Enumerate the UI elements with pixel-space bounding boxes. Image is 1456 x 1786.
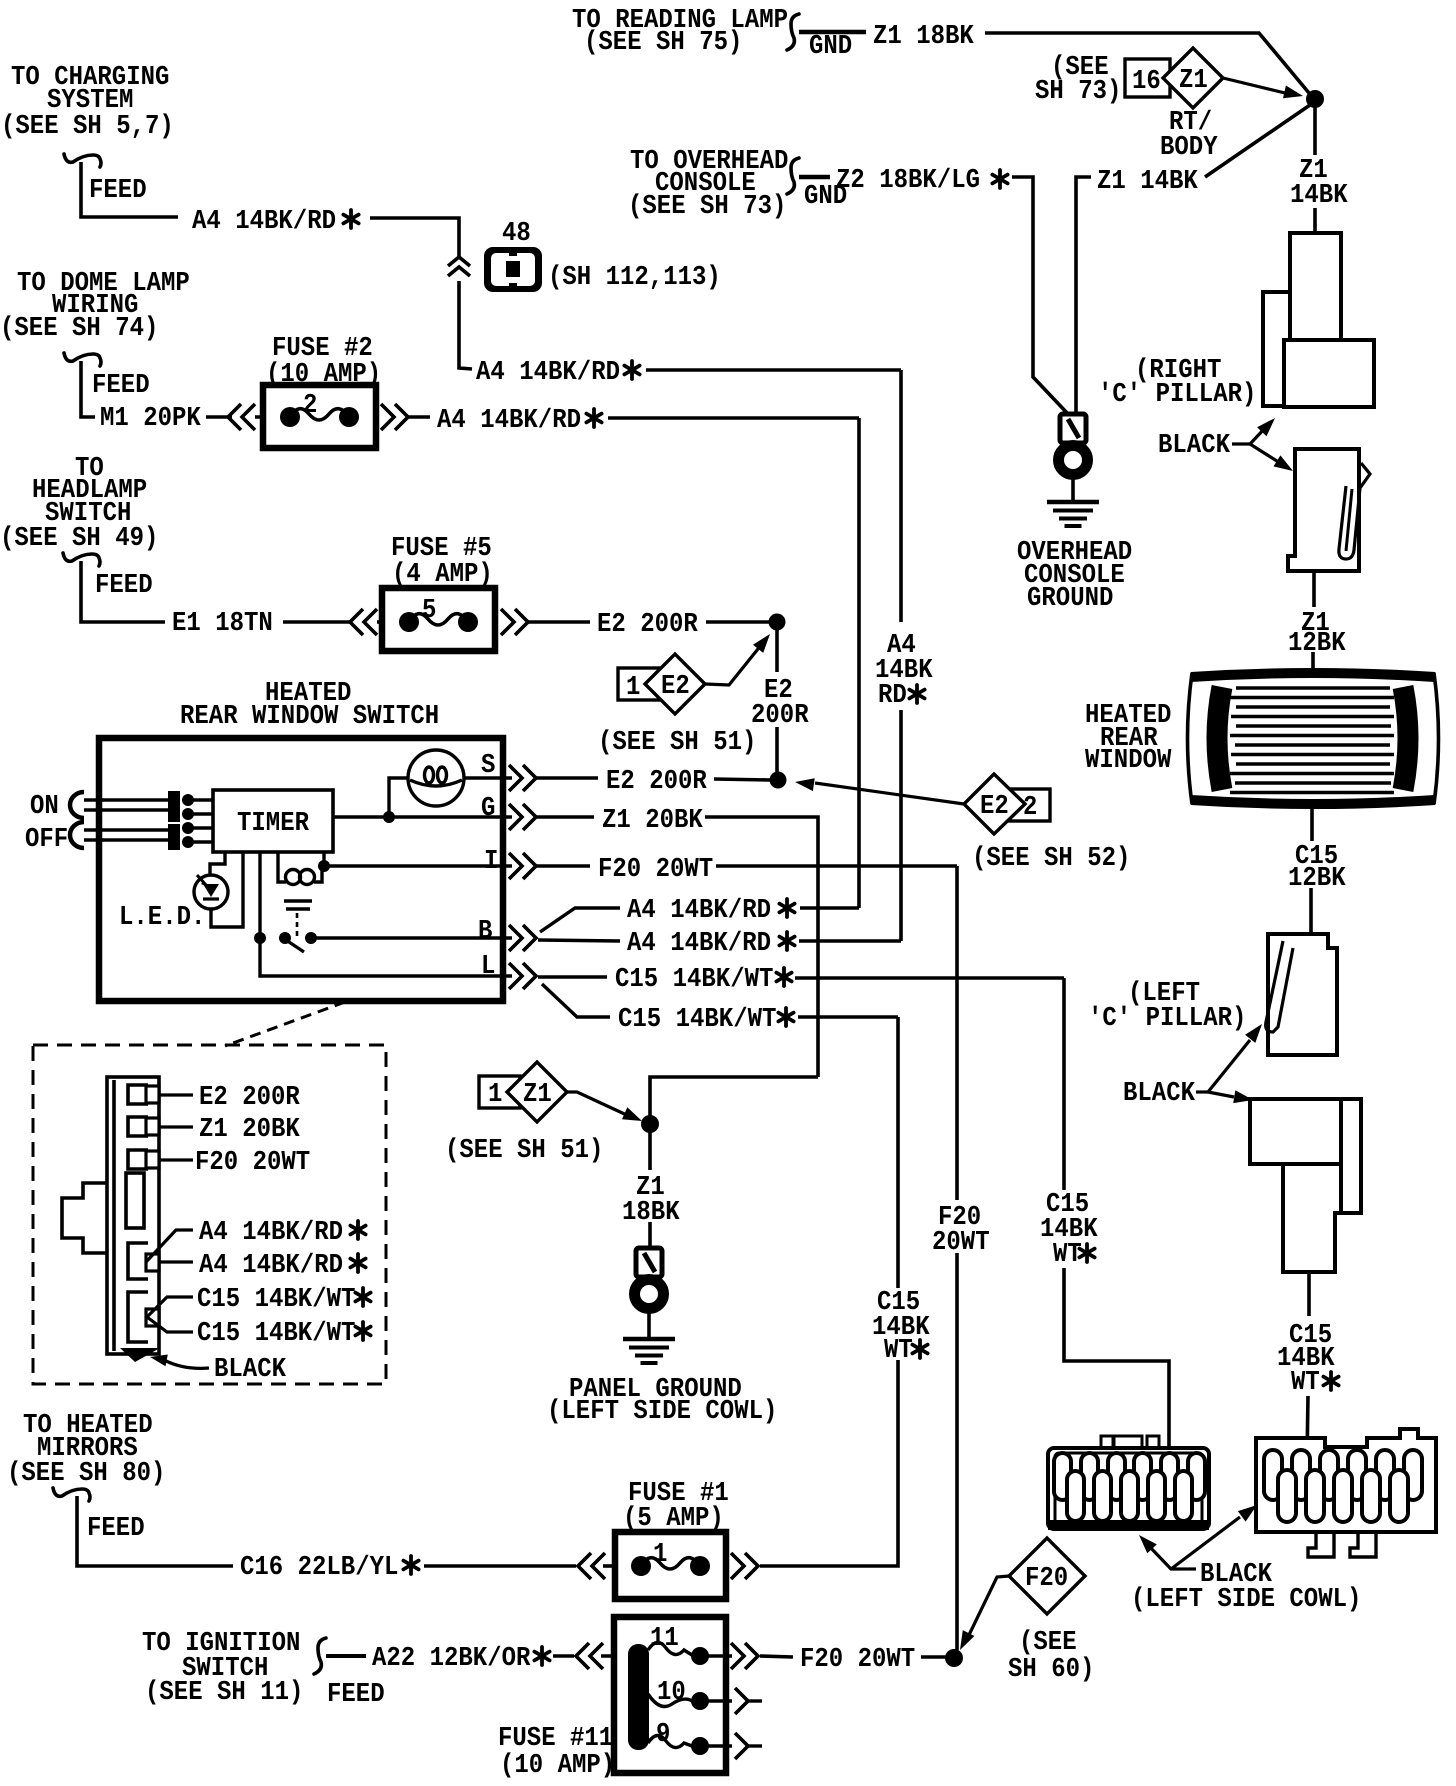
wire: Z1 down to right C pillar connector [1313, 107, 1317, 235]
feed symbol (headlamp switch) [63, 553, 153, 600]
ground: overhead console ground symbol [1047, 502, 1099, 526]
fuse block F11 (10A) with fuses 11/10/9 [614, 1617, 732, 1773]
wire: row1 to vertical x=859 [800, 906, 859, 910]
svg-text:ON: ON [30, 791, 59, 821]
wire: vertical A4 line x=859 [857, 418, 861, 908]
wire: pin G right then down x=818 [705, 817, 818, 1077]
svg-text:WT: WT [1053, 1239, 1082, 1269]
wire: gnd stub to Z2 label [799, 175, 830, 180]
LED D1 [119, 875, 228, 932]
svg-text:(SEE SH 75): (SEE SH 75) [584, 27, 742, 57]
wire: gnd stub to Z1 18BK [799, 30, 866, 35]
svg-text:E2 200R: E2 200R [597, 609, 698, 639]
svg-text:(SEE SH 51): (SEE SH 51) [445, 1135, 603, 1165]
dashed detail box (switch connector detail) [33, 1045, 386, 1384]
connector: left C pillar (upper half with latch) [1266, 934, 1337, 1055]
wire: lamp to S pin and to G node [389, 778, 512, 812]
wire: TIMER to B contact [258, 852, 261, 938]
wire: to F20 junction [921, 1655, 947, 1659]
pins of detail connector [146, 1086, 159, 1326]
wire: Z1 horizontal y=1077 and down x=650 [650, 1077, 818, 1249]
svg-text:(10 AMP): (10 AMP) [500, 1750, 615, 1780]
svg-text:A4 14BK/RD: A4 14BK/RD [627, 928, 771, 958]
wire: pin B straight row 2 [538, 940, 620, 941]
svg-text:Z2 18BK/LG: Z2 18BK/LG [836, 165, 980, 195]
switch contact (relay points) [254, 932, 317, 952]
svg-text:BLACK: BLACK [214, 1354, 286, 1384]
pin S [481, 750, 598, 791]
wire: fuse2 output right to vertical x=859 [608, 416, 859, 420]
inline connector chevrons on A4 wire [448, 257, 470, 276]
net label F20 20WT (on vertical) [932, 1202, 990, 1257]
node: (LEFT 'C' PILLAR) label [1088, 978, 1246, 1033]
node: TO CHARGING SYSTEM source label [1, 62, 174, 141]
svg-text:C16 22LB/YL: C16 22LB/YL [240, 1552, 398, 1582]
junction: E2 upper node [769, 614, 786, 631]
svg-text:(SEE SH 74): (SEE SH 74) [0, 313, 158, 343]
wire: Z1 18BK to junction (diagonal) [985, 33, 1309, 93]
wire: feed to C16 label [77, 1496, 233, 1566]
ring terminal (panel ground) [635, 1248, 664, 1309]
label BLACK with arrows (right C pillar) [1158, 418, 1293, 471]
wire: C15 14BK WT* drop to cowl connector [1307, 1272, 1309, 1460]
net label C15 14BK WT* (on x=1064 vertical) [1040, 1189, 1098, 1269]
wire: pin S to E2 lower junction [714, 779, 770, 780]
connector bars inside switch [168, 791, 180, 822]
fuse F2 (10A) [263, 385, 376, 448]
wire: junction diagonal down-left to Z1 14BK label [1205, 105, 1310, 177]
svg-text:G: G [481, 793, 495, 823]
fuse F1 (5A) [615, 1532, 726, 1599]
wire: pin B diagonal to A4 row 1 [540, 908, 620, 932]
connector out of fuse 11 (row 11) [731, 1643, 793, 1669]
wire: feed stub to A22 label [326, 1654, 366, 1658]
svg-text:(SEE SH 11): (SEE SH 11) [145, 1677, 303, 1707]
net label A22 12BK/OR* [372, 1643, 550, 1673]
wire: pin I right to F20 vertical x=957 [716, 864, 957, 868]
wire under ring terminal [647, 1310, 651, 1338]
svg-text:(LEFT SIDE COWL): (LEFT SIDE COWL) [547, 1396, 777, 1426]
node: HEATED REAR WINDOW label [1085, 700, 1171, 775]
net label A4 14BK/RD * (detail row 2) [199, 1250, 366, 1280]
gnd stub symbol (reading lamp) [787, 14, 852, 61]
svg-text:(SEE SH 73): (SEE SH 73) [628, 191, 786, 221]
connector out chevrons (rows 10 and 9) [735, 1688, 762, 1759]
ground: panel ground symbol [623, 1339, 675, 1363]
wire: vertical C15 x=898 down to fuse1 output [760, 1017, 898, 1566]
wires: LED loop to TIMER [210, 852, 243, 927]
node: TO DOME LAMP WIRING source label [0, 268, 190, 343]
svg-text:(SEE SH 5,7): (SEE SH 5,7) [1, 111, 174, 141]
wire: B row inside switch [311, 936, 512, 939]
svg-text:(SEE SH 52): (SEE SH 52) [972, 843, 1130, 873]
flag: connector 16 / Z1 diamond (SEE SH 73) [1035, 48, 1303, 162]
node: TO READING LAMP source label [572, 5, 788, 57]
feed symbol (dome lamp) [64, 353, 150, 400]
feed symbol (heated mirrors) [53, 1488, 145, 1543]
node: (RIGHT 'C' PILLAR) label [1098, 355, 1256, 409]
svg-text:E2: E2 [980, 791, 1009, 821]
svg-text:A4 14BK/RD: A4 14BK/RD [437, 405, 581, 435]
svg-text:A4 14BK/RD: A4 14BK/RD [199, 1250, 343, 1280]
svg-text:E2 200R: E2 200R [199, 1082, 300, 1112]
svg-text:GND: GND [809, 31, 852, 61]
wire leads + labels inside detail box [146, 1095, 193, 1332]
wire under ring [1071, 476, 1075, 501]
svg-text:F20 20WT: F20 20WT [195, 1147, 310, 1177]
node: PANEL GROUND label [547, 1374, 777, 1426]
svg-text:(LEFT SIDE COWL): (LEFT SIDE COWL) [1131, 1584, 1361, 1614]
wire + connector into fuse 1 [424, 1553, 618, 1579]
switch SW1 housing box [99, 738, 503, 1001]
net label Z1 12BK [1288, 608, 1346, 658]
svg-text:12BK: 12BK [1288, 628, 1346, 658]
wire: vertical C15 x=1064 to left cowl connector [1064, 978, 1169, 1448]
dashed leader from switch to detail box [225, 1002, 345, 1046]
connector out of fuse 5 [501, 609, 590, 635]
label BLACK (LEFT SIDE COWL) with arrows [1131, 1505, 1361, 1614]
connector: left side cowl (black 6-way) [1048, 1436, 1209, 1530]
junction on I wire [318, 860, 330, 872]
svg-text:SH 60): SH 60) [1008, 1654, 1094, 1684]
svg-text:Z1 14BK: Z1 14BK [1097, 166, 1198, 196]
net label A4 14BK RD* (3 line label on vertical wire) [875, 630, 933, 710]
svg-text:OFF: OFF [25, 824, 68, 854]
svg-text:20WT: 20WT [932, 1227, 990, 1257]
relay coil K1 [278, 852, 324, 885]
svg-text:12BK: 12BK [1288, 863, 1346, 893]
wire: pin L diagonal to C15 row 2 [542, 984, 610, 1017]
wire: feed to M1 20PK [81, 361, 95, 417]
svg-text:E2: E2 [661, 671, 690, 701]
wire: E2 vertical (interrupted by label) [775, 622, 779, 780]
junction on G wire [383, 811, 395, 823]
connector: right C pillar (lower half with latch) [1288, 449, 1370, 571]
pin B [478, 916, 536, 951]
svg-text:Z1 20BK: Z1 20BK [602, 805, 703, 835]
svg-text:'C' PILLAR): 'C' PILLAR) [1088, 1003, 1246, 1033]
net label E2 200R (vertical) [751, 675, 809, 730]
net label C15 14BK/WT* (pin L row 2) [618, 1004, 794, 1034]
svg-text:A22 12BK/OR: A22 12BK/OR [372, 1643, 530, 1673]
flag: connector 1 / E2 diamond (SEE SH 51) [598, 634, 770, 757]
wire: Z1 14BK down to ring terminal x=1076 [1076, 177, 1091, 415]
junction: Z1 body node [1306, 90, 1324, 108]
pin G [481, 793, 594, 830]
net label A4 14BK/RD * (detail row 1) [199, 1217, 366, 1247]
lamp: indicator bulb in switch [408, 750, 464, 806]
wire: window bottom C15 12BK [1311, 807, 1312, 934]
capacitor C1 (contact actuator) [284, 901, 312, 936]
wire + connector into fuse 11 [553, 1643, 630, 1669]
junction: E2 lower node [770, 772, 787, 789]
net label Z2 18BK/LG * [836, 165, 1008, 195]
svg-text:FEED: FEED [87, 1513, 145, 1543]
connector: right C pillar (upper half) [1263, 233, 1374, 407]
net label C15 14BK/WT* (detail row 1) [197, 1284, 371, 1314]
svg-text:14BK: 14BK [1290, 180, 1348, 210]
svg-text:WT: WT [884, 1335, 913, 1365]
wire: feed down and right to A4 14BK/RD [81, 162, 178, 217]
feed stub symbol (ignition) [314, 1638, 385, 1709]
junction dots to TIMER [182, 794, 194, 848]
wire + connector into fuse 5 [283, 609, 400, 635]
connector: switch connector detail housing [62, 1077, 159, 1354]
svg-text:S: S [481, 750, 495, 780]
net label A4 14BK/RD * (pin B row 1) [627, 895, 795, 925]
svg-text:F20 20WT: F20 20WT [598, 854, 713, 884]
svg-text:Z1 20BK: Z1 20BK [199, 1114, 300, 1144]
svg-text:1: 1 [488, 1079, 502, 1109]
svg-text:1: 1 [653, 1539, 667, 1569]
svg-text:WT: WT [1291, 1367, 1320, 1397]
net label C15 14BK WT* (left C pillar drop) [1277, 1320, 1339, 1397]
connector out of fuse 2 [381, 404, 430, 430]
label BLACK (detail connector) [120, 1348, 286, 1384]
wires: ON/OFF pairs into switch [84, 800, 170, 840]
net label C16 22LB/YL * [240, 1552, 419, 1582]
wire: C15 row2 to vertical x=898 [798, 1015, 898, 1019]
node: OVERHEAD CONSOLE GROUND label [1017, 537, 1132, 613]
fuse F5 label [391, 533, 493, 589]
node: TO HEADLAMP SWITCH source label [0, 453, 158, 553]
gnd stub symbol (overhead console) [787, 158, 847, 211]
svg-text:(SEE: (SEE [1019, 1627, 1077, 1657]
pin L [481, 951, 536, 989]
node ON terminal [30, 791, 84, 821]
node: TO HEATED MIRRORS source label [7, 1410, 165, 1488]
svg-text:SH 73): SH 73) [1035, 76, 1121, 106]
fuse F1 label [623, 1478, 729, 1533]
svg-text:E2 200R: E2 200R [606, 766, 707, 796]
pin I [484, 846, 590, 879]
svg-text:(SH 112,113): (SH 112,113) [548, 262, 721, 292]
svg-text:(SEE SH 51): (SEE SH 51) [598, 727, 756, 757]
component: TIMER block U1 [213, 790, 333, 852]
svg-text:FEED: FEED [92, 370, 150, 400]
flag: E2 diamond / 2 (SEE SH 52) [795, 774, 1130, 873]
wires: dots to TIMER [193, 800, 213, 842]
svg-text:2: 2 [1023, 792, 1037, 822]
svg-text:200R: 200R [751, 700, 809, 730]
svg-text:A4 14BK/RD: A4 14BK/RD [199, 1217, 343, 1247]
wire: vertical A4 line x=901 (interrupted by label) [899, 370, 903, 941]
svg-text:C15 14BK/WT: C15 14BK/WT [197, 1284, 355, 1314]
wire: I row inside switch [324, 864, 512, 867]
svg-text:16: 16 [1132, 66, 1161, 96]
svg-text:5: 5 [422, 595, 436, 625]
wire: A4 across and down at x=459 [370, 218, 472, 369]
net label C15 14BK/WT* (pin L row 1) [615, 964, 792, 994]
component: HEATED REAR WINDOW SWITCH title [180, 678, 439, 731]
junction: F20 node [945, 1649, 963, 1667]
svg-text:M1 20PK: M1 20PK [100, 403, 201, 433]
svg-text:18BK: 18BK [622, 1197, 680, 1227]
svg-text:(5 AMP): (5 AMP) [623, 1503, 724, 1533]
svg-text:L: L [481, 951, 495, 981]
net label Z1 14BK (below junction) [1290, 155, 1348, 210]
wire: row2 to vertical x=901 [799, 939, 901, 943]
net label C15 12BK [1288, 841, 1346, 893]
wire: TIMER out to G pin [333, 815, 512, 818]
wire: feed to E1 18TN [81, 561, 165, 622]
svg-text:Z1: Z1 [1179, 65, 1208, 95]
net label Z1 18BK (ground drop) [622, 1172, 680, 1227]
net label A4 14BK/RD * (row 2, y=370) [476, 357, 640, 387]
wire: pin L straight row 1 [538, 975, 607, 978]
svg-text:F20 20WT: F20 20WT [800, 1644, 915, 1674]
wire: Z1 12BK drop [1313, 571, 1314, 670]
svg-text:C15 14BK/WT: C15 14BK/WT [615, 964, 773, 994]
net label A4 14BK/RD * (row 1) [192, 206, 359, 236]
wire: C15 row1 right to vertical x=1064 [795, 976, 1064, 980]
svg-text:L.E.D.: L.E.D. [119, 902, 205, 932]
svg-text:2: 2 [303, 390, 317, 420]
svg-text:'C' PILLAR): 'C' PILLAR) [1098, 379, 1256, 409]
svg-text:FEED: FEED [89, 175, 147, 205]
feed symbol (charging system) [64, 154, 147, 205]
svg-text:BLACK: BLACK [1123, 1078, 1195, 1108]
component: HEATED REAR WINDOW grid [1188, 673, 1439, 804]
svg-text:A4 14BK/RD: A4 14BK/RD [192, 206, 336, 236]
connector: left C pillar (lower half) [1250, 1099, 1361, 1272]
wire: Z2 down x=1033 then diagonal to ring [1012, 177, 1069, 415]
net label C15 14BK/WT* (detail row 2) [197, 1318, 371, 1348]
svg-text:I: I [484, 846, 498, 876]
wire: vertical F20 x=957 (interrupted by label) [955, 866, 959, 1650]
svg-text:C15 14BK/WT: C15 14BK/WT [618, 1004, 776, 1034]
fuse F11 label [498, 1723, 615, 1780]
svg-text:FUSE #11: FUSE #11 [498, 1723, 613, 1753]
net label A4 14BK/RD * (pin B row 2) [627, 928, 795, 958]
ring terminal (overhead console ground) [1059, 414, 1088, 475]
svg-text:FEED: FEED [327, 1679, 385, 1709]
svg-text:(4 AMP): (4 AMP) [392, 559, 493, 589]
flag: connector 1 / Z1 diamond (SEE SH 51) [445, 1062, 642, 1165]
svg-text:1: 1 [626, 672, 640, 702]
svg-text:A4 14BK/RD: A4 14BK/RD [476, 357, 620, 387]
svg-text:B: B [478, 916, 492, 946]
label BLACK with arrows (left C pillar) [1123, 1024, 1262, 1108]
svg-text:BODY: BODY [1160, 132, 1218, 162]
svg-text:C15 14BK/WT: C15 14BK/WT [197, 1318, 355, 1348]
net label C15 14BK WT* (on x=898 vertical) [872, 1287, 930, 1365]
wire: to E2 junction [706, 620, 770, 624]
svg-text:REAR WINDOW SWITCH: REAR WINDOW SWITCH [180, 701, 439, 731]
svg-text:A4 14BK/RD: A4 14BK/RD [627, 895, 771, 925]
svg-text:Z1: Z1 [523, 1079, 552, 1109]
svg-text:BLACK: BLACK [1158, 430, 1230, 460]
svg-text:WINDOW: WINDOW [1085, 745, 1171, 775]
fuse F5 (4A) [382, 588, 495, 651]
wire: A4 row2 right to vertical x=901 [646, 368, 901, 372]
junction: Z1 panel ground node [641, 1115, 659, 1133]
net label A4 14BK/RD * (fuse2 output) [437, 405, 602, 435]
flag: F20 diamond (SEE SH 60) [960, 1538, 1094, 1684]
svg-text:(SEE SH 49): (SEE SH 49) [0, 523, 158, 553]
wire + connector into fuse 2 [206, 404, 285, 430]
svg-text:(SEE SH 80): (SEE SH 80) [7, 1458, 165, 1488]
svg-text:E1 18TN: E1 18TN [172, 608, 273, 638]
connector: left side cowl (6-way with legs) [1256, 1429, 1436, 1557]
wire: L row inside switch [260, 938, 512, 976]
svg-text:Z1 18BK: Z1 18BK [873, 21, 974, 51]
svg-text:GROUND: GROUND [1027, 583, 1113, 613]
svg-text:F20: F20 [1025, 1563, 1068, 1593]
svg-text:RD: RD [878, 680, 907, 710]
node: TO OVERHEAD CONSOLE source label [628, 146, 788, 221]
svg-text:TIMER: TIMER [237, 808, 309, 838]
svg-text:FEED: FEED [95, 570, 153, 600]
connector out of fuse 1 [731, 1553, 758, 1579]
node OFF terminal [25, 822, 84, 854]
node: TO IGNITION SWITCH source label [142, 1628, 303, 1707]
fuse F2 label [266, 333, 381, 389]
connector 48 (black in-line connector icon) [484, 218, 721, 292]
svg-text:48: 48 [502, 218, 531, 248]
